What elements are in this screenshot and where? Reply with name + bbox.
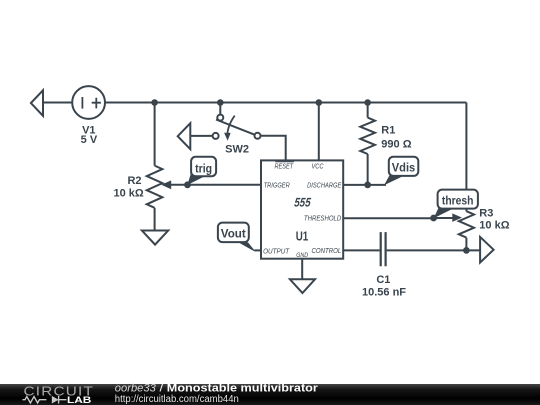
wire SW2 right throw to RESET pin (260, 136, 285, 161)
potentiometer R2 wiper arrowhead (161, 180, 171, 189)
footer title (115, 383, 319, 395)
svg-text:OUTPUT: OUTPUT (263, 247, 290, 256)
resistor R2 zigzag (147, 166, 163, 208)
value 10 kOhm R3 (479, 220, 509, 232)
svg-text:10 kΩ: 10 kΩ (113, 187, 143, 199)
svg-text:RESET: RESET (275, 162, 295, 171)
svg-text:555: 555 (293, 196, 312, 210)
flag box Vdis (389, 157, 419, 176)
switch SW2 lever (216, 120, 255, 135)
svg-text:Vout: Vout (221, 227, 246, 241)
svg-text:DISCHARGE: DISCHARGE (307, 181, 342, 190)
node flag at V1 minus (31, 90, 43, 116)
switch SW2 terminal circles (213, 115, 261, 139)
svg-text:thresh: thresh (442, 193, 474, 207)
wire DISCHARGE line (343, 184, 386, 186)
svg-text:TRIGGER: TRIGGER (264, 181, 290, 190)
ground under U1 GND (290, 279, 315, 293)
svg-text:R2: R2 (127, 175, 141, 187)
logo CIRCUIT (24, 384, 95, 398)
flag tail trig (187, 173, 204, 185)
pin label VCC (312, 162, 324, 171)
svg-text:SW2: SW2 (225, 144, 249, 156)
resistor R3 zigzag (459, 211, 474, 237)
switch SW2 actuator arc (227, 116, 234, 134)
wire CONTROL to C1 (343, 249, 379, 251)
pin label RESET with overline (275, 162, 295, 171)
label R3 (479, 207, 493, 219)
svg-text:VCC: VCC (312, 162, 324, 171)
wire R3 wiper (434, 217, 453, 219)
node flag right output (480, 237, 494, 263)
svg-text:CONTROL: CONTROL (312, 246, 342, 255)
op-amp box U1 555 (261, 160, 343, 258)
node flag at SW2 left throw (178, 123, 191, 149)
logo resistor zigzag (23, 397, 47, 403)
wire R1 bottom to discharge node (367, 154, 369, 185)
wire OUTPUT stub (254, 249, 261, 251)
svg-text:LAB: LAB (67, 395, 91, 405)
pin label THRESHOLD (304, 214, 342, 223)
wire R3 bottom (465, 238, 467, 251)
ground under R2 (142, 231, 168, 245)
svg-text:R1: R1 (381, 125, 395, 137)
voltage source V1 circle (72, 86, 105, 119)
svg-text:10 kΩ: 10 kΩ (479, 220, 509, 232)
wire VCC pin (318, 103, 320, 161)
svg-text:5 V: 5 V (81, 134, 98, 146)
svg-text:990 Ω: 990 Ω (381, 139, 411, 151)
footer bar (0, 384, 540, 405)
label R2 (127, 175, 141, 187)
pin label GND (296, 252, 308, 259)
logo diode (52, 396, 67, 404)
svg-text:R3: R3 (479, 207, 493, 219)
label C1 (376, 274, 390, 286)
flag box thresh (438, 190, 478, 209)
svg-text:Vdis: Vdis (392, 160, 416, 174)
svg-text:10.56 nF: 10.56 nF (362, 287, 406, 299)
wire top rail (105, 102, 466, 104)
part number 555 (293, 196, 312, 210)
label R1 (381, 125, 395, 137)
value 10.56 nF (362, 287, 406, 299)
label SW2 (225, 144, 249, 156)
value 5 V (81, 134, 98, 146)
designator U1 (296, 230, 309, 244)
flag box Vout (218, 223, 249, 243)
wire THRESHOLD line (343, 217, 433, 219)
svg-text:trig: trig (195, 161, 212, 175)
wire right vertical drop to R3 (465, 103, 467, 212)
flag tail Vdis (384, 173, 404, 186)
pin label TRIGGER (264, 181, 290, 190)
wire R2 bottom to ground (154, 208, 156, 231)
wire TRIGGER line (171, 184, 261, 186)
value 990 Ohm (381, 139, 411, 151)
flag tail thresh (434, 206, 453, 218)
svg-text:oorbe33 / Monostable multivibr: oorbe33 / Monostable multivibrator (115, 383, 319, 395)
resistor R1 zigzag (360, 118, 375, 154)
flag tail Vout (234, 240, 255, 251)
svg-text:C1: C1 (376, 274, 390, 286)
wire GND pin (301, 259, 303, 280)
pin label DISCHARGE (307, 181, 342, 190)
svg-text:GND: GND (296, 252, 308, 259)
capacitor C1 plates (381, 232, 386, 266)
svg-text:http://circuitlab.com/camb44n: http://circuitlab.com/camb44n (115, 394, 239, 405)
potentiometer R3 wiper arrowhead (452, 213, 462, 222)
pin label OUTPUT (263, 247, 290, 256)
wire R1 top (367, 103, 369, 118)
wire V1 flag to source (43, 102, 72, 104)
svg-text:THRESHOLD: THRESHOLD (304, 214, 342, 223)
junction node dots (151, 99, 470, 254)
value 10 kOhm R2 (113, 187, 143, 199)
logo LAB (67, 395, 91, 405)
svg-text:U1: U1 (296, 230, 309, 244)
footer url (115, 394, 239, 405)
label V1 (82, 125, 95, 137)
wire R2 top drop (154, 103, 156, 166)
wire SW2 common drop (219, 103, 221, 115)
wire C1 to right flag (387, 249, 480, 251)
wire SW2 left throw to flag (190, 135, 212, 137)
flag box trig (191, 157, 216, 176)
pin label CONTROL (312, 246, 342, 255)
switch SW2 actuator arrowhead (224, 133, 231, 141)
